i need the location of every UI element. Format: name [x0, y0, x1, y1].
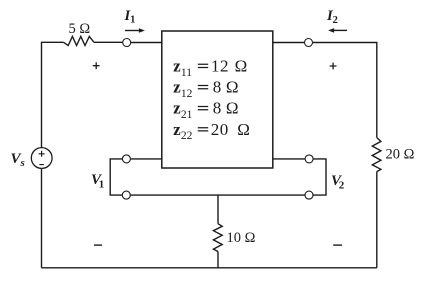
svg-text:10 Ω: 10 Ω [227, 230, 256, 246]
voltage source Vs circle [31, 148, 52, 169]
z-parameter text line 4: z22 = 20 ohm [173, 120, 250, 142]
z-parameter text line 2: z12 = 8 ohm [173, 78, 238, 100]
wire: top rail terminal a to box left edge [131, 42, 162, 44]
wire: right side below 20 ohm down to bottom rail [376, 172, 378, 268]
svg-text:I2: I2 [326, 8, 338, 26]
svg-text:20 Ω: 20 Ω [386, 147, 415, 163]
terminal V1- (middle left lower) [122, 191, 130, 199]
wire: V1 left bracket [110, 159, 122, 195]
wire: top rail left segment (corner to 5-ohm resistor) [42, 42, 64, 147]
polarity plus sign at port 1 [93, 62, 100, 69]
wire: 10 ohm bottom stem [217, 252, 219, 268]
wire: bottom rail [42, 267, 377, 269]
wire: junction to V2 bottom terminal [218, 194, 305, 196]
arrow for current I2 (pointing left) [328, 28, 347, 33]
svg-text:z2220Ω: z2220Ω [173, 120, 250, 142]
arrow for current I1 (pointing right) [125, 28, 145, 33]
terminal V1+ (middle left upper) [122, 155, 130, 163]
voltage source minus sign [39, 164, 43, 166]
terminal a (port 1 top, on top rail) [123, 39, 131, 47]
svg-text:I1: I1 [124, 8, 136, 26]
polarity plus sign at port 2 [330, 63, 337, 70]
two-port network box U1 [162, 31, 273, 168]
wire: V1 top terminal lead to box left [131, 158, 162, 160]
polarity minus sign bottom left [94, 244, 102, 246]
wire: V2 top terminal lead to box right [273, 158, 305, 160]
z-parameter text line 3: z21 = 8 ohm [173, 99, 238, 121]
svg-text:5 Ω: 5 Ω [69, 21, 91, 37]
svg-text:z1112Ω: z1112Ω [173, 57, 247, 79]
wire: 10 ohm top stem [217, 195, 219, 224]
resistor R2 20 ohm zigzag [372, 138, 381, 172]
wire: V1 bottom terminal to 10 ohm junction [130, 194, 218, 196]
z-parameter text line 1: z11 = 12 ohm [173, 57, 247, 79]
terminal V2- (middle right lower) [305, 191, 313, 199]
wire: top rail terminal c to top-right corner, down right side [313, 43, 377, 138]
terminal V2+ (middle right upper) [305, 155, 313, 163]
svg-text:V2: V2 [331, 173, 345, 192]
polarity minus sign bottom right [333, 244, 342, 246]
wire: left side from Vs bottom to bottom rail [41, 168, 43, 267]
svg-text:Vs: Vs [11, 151, 25, 169]
resistor R3 10 ohm zigzag [213, 224, 222, 252]
voltage source plus sign [39, 151, 45, 157]
resistor R1 5 ohm zigzag [64, 36, 95, 45]
wire: top rail box right edge to terminal c [273, 42, 305, 44]
wire: top rail from resistor to terminal a [94, 41, 123, 43]
terminal c (port 2 top, on top rail) [305, 39, 313, 47]
svg-text:V1: V1 [91, 172, 104, 191]
wire: V2 right bracket [313, 159, 326, 195]
